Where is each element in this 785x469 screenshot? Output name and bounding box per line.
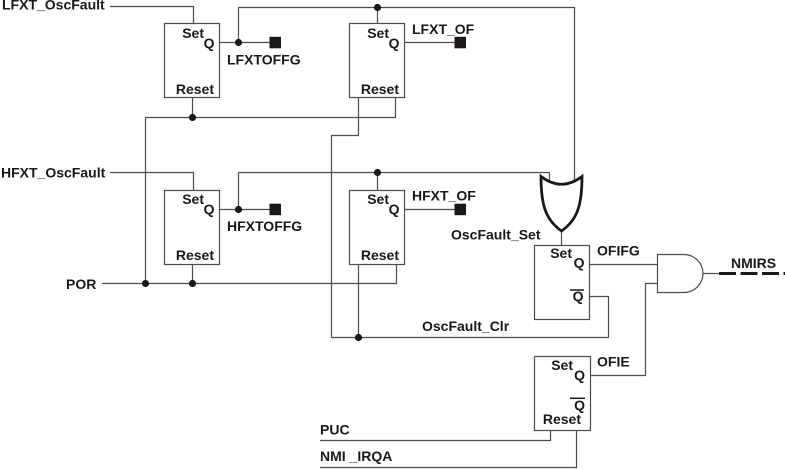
svg-text:Reset: Reset (176, 247, 214, 263)
svg-text:Reset: Reset (543, 411, 581, 427)
svg-text:Q: Q (204, 35, 215, 51)
net label OscFault_Set (451, 226, 541, 242)
net label OFIE (597, 354, 630, 370)
OR gate U7 OscFault_Set (541, 177, 582, 232)
svg-text:NMI _IRQA: NMI _IRQA (320, 448, 392, 464)
svg-text:Set: Set (367, 25, 389, 41)
svg-text:NMIRS: NMIRS (731, 255, 776, 271)
net label PUC (320, 422, 350, 438)
wire U6 Q (OFIE) to AND gate U8 input B (591, 284, 659, 376)
svg-text:Reset: Reset (176, 81, 214, 97)
net label POR (66, 276, 96, 292)
svg-text:LFXT_OscFault: LFXT_OscFault (2, 0, 105, 13)
wire AND gate U8 output stub (703, 273, 719, 275)
test point square HFXT_OF (455, 204, 467, 216)
svg-text:Q: Q (574, 367, 585, 383)
wire NMIRS dashed output (719, 272, 785, 275)
wire NMI_IRQA to U6 Reset (320, 431, 577, 468)
net label NMI_IRQA (320, 448, 392, 464)
wire U3 Reset drop (192, 265, 194, 284)
wire U4 Q output to HFXT_OF test point (405, 209, 455, 211)
latch U6 OFIE flip-flop (535, 357, 591, 431)
svg-text:Set: Set (367, 191, 389, 207)
latch U3 HFXTOFFG flip-flop (165, 191, 220, 265)
svg-text:Q: Q (389, 201, 400, 217)
junction dot POR node B (189, 280, 196, 287)
wire LFXTOFFG Q rail to OR gate U7 input B (239, 8, 575, 185)
svg-text:OFIFG: OFIFG (597, 242, 640, 258)
junction dot LFXTOFFG node (235, 39, 242, 46)
svg-text:Q: Q (389, 35, 400, 51)
svg-text:Q: Q (204, 201, 215, 217)
wire POR line (102, 265, 397, 284)
net label LFXTOFFG (227, 52, 301, 68)
latch U5 OFIFG flip-flop (535, 245, 590, 320)
wire branch to U2 Set (377, 8, 379, 24)
net label HFXT_OscFault (1, 165, 106, 181)
junction dot U4 Set node (374, 169, 381, 176)
net label HFXTOFFG (227, 218, 302, 234)
svg-text:HFXT_OscFault: HFXT_OscFault (1, 165, 106, 181)
latch U1 LFXTOFFG flip-flop (165, 24, 220, 98)
wire PUC to U6 Reset (320, 431, 551, 441)
svg-text:LFXT_OF: LFXT_OF (412, 21, 475, 37)
net label HFXT_OF (412, 187, 476, 203)
net label OscFault_Clr (422, 318, 510, 334)
svg-text:HFXTOFFG: HFXTOFFG (227, 218, 302, 234)
test point square LFXT_OF (455, 37, 467, 49)
net label NMIRS (731, 255, 776, 271)
test point square LFXTOFFG (270, 37, 282, 49)
latch U2 LFXT_OF flip-flop (350, 24, 405, 98)
test point square HFXTOFFG (270, 204, 282, 216)
junction dot reset rail (189, 114, 196, 121)
svg-text:Set: Set (550, 245, 572, 261)
net label LFXT_OF (412, 21, 475, 37)
svg-text:Set: Set (551, 357, 573, 373)
wire branch to U4 Set (377, 173, 379, 191)
svg-text:OscFault_Clr: OscFault_Clr (422, 318, 510, 334)
wire U4 Reset to OscFault_Clr (358, 265, 360, 338)
svg-text:Reset: Reset (361, 247, 399, 263)
wire U1 Reset drop (192, 98, 194, 118)
junction dot OscFault_Clr node (355, 334, 362, 341)
AND gate U8 (658, 255, 704, 293)
svg-text:PUC: PUC (320, 422, 350, 438)
svg-text:OscFault_Set: OscFault_Set (451, 226, 541, 242)
wire U2 Q output to LFXT_OF test point (405, 42, 455, 44)
latch U4 HFXT_OF flip-flop (350, 191, 405, 265)
net label OFIFG (597, 242, 640, 258)
junction dot HFXTOFFG node (235, 206, 242, 213)
svg-text:OFIE: OFIE (597, 354, 630, 370)
wire U2 Reset to OscFault_Clr (332, 98, 359, 338)
svg-text:HFXT_OF: HFXT_OF (412, 187, 476, 203)
svg-text:Set: Set (182, 191, 204, 207)
svg-text:Set: Set (182, 25, 204, 41)
svg-text:POR: POR (66, 276, 96, 292)
wire U5 Q (OFIFG) to AND gate U8 input A (590, 264, 659, 266)
svg-text:Reset: Reset (361, 81, 399, 97)
wire OscFault_Clr from U5 Qbar (332, 297, 609, 338)
wire HFXTOFFG Q rail to OR gate U7 input A (239, 173, 550, 210)
junction dot POR node A (142, 280, 149, 287)
wire U3 Q output (220, 209, 271, 211)
svg-text:Q: Q (574, 254, 585, 270)
wire LFXT_OscFault input to U1 Set (110, 7, 194, 24)
junction dot U2 Set node (374, 4, 381, 11)
wire reset rail U2/U1 to POR line (146, 98, 396, 284)
wire HFXT_OscFault input to U3 Set (110, 173, 194, 191)
wire OR gate U7 output to U5 Set (561, 228, 563, 246)
wire U1 Q output (220, 42, 271, 44)
net label LFXT_OscFault (2, 0, 105, 13)
svg-text:LFXTOFFG: LFXTOFFG (227, 52, 301, 68)
